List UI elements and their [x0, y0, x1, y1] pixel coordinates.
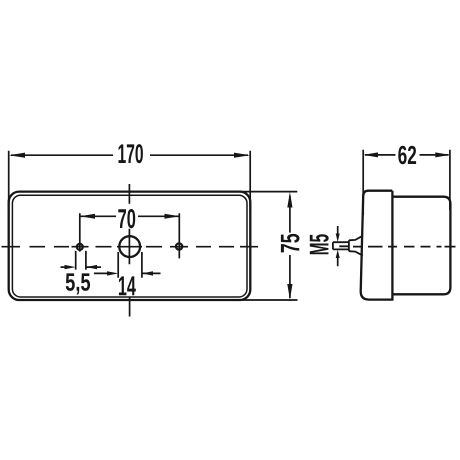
side view centerline — [353, 246, 456, 248]
dimension text 62 — [398, 146, 416, 165]
dimension text 170 — [119, 144, 143, 163]
vertical centerline of center hole — [128, 184, 130, 317]
dimension 75 — [235, 192, 298, 300]
dimension text 14 — [119, 276, 136, 295]
lamp inner lens edge — [12, 195, 247, 297]
dimension 62 — [363, 150, 450, 215]
lamp outer body — [9, 192, 251, 300]
center hole (14) — [119, 236, 140, 257]
dimension 170 — [9, 151, 251, 212]
dimension 70 — [80, 213, 180, 258]
side view housing — [361, 191, 394, 300]
dimension 14 — [94, 252, 161, 278]
right mounting hole — [176, 243, 182, 249]
M5 stud rod — [333, 242, 349, 249]
stud washer + boss — [349, 236, 363, 256]
side view separator line — [391, 191, 393, 300]
M5 arrows — [337, 226, 339, 266]
dimension text M5 — [310, 234, 329, 254]
side view lens — [392, 197, 450, 295]
horizontal centerline left view — [2, 246, 259, 248]
dimension text 5,5 — [66, 273, 90, 294]
dimension text 75 — [281, 234, 300, 253]
dimension 5,5 — [61, 251, 102, 270]
dimension text 70 — [118, 209, 135, 228]
left mounting hole (5,5) — [77, 244, 83, 250]
